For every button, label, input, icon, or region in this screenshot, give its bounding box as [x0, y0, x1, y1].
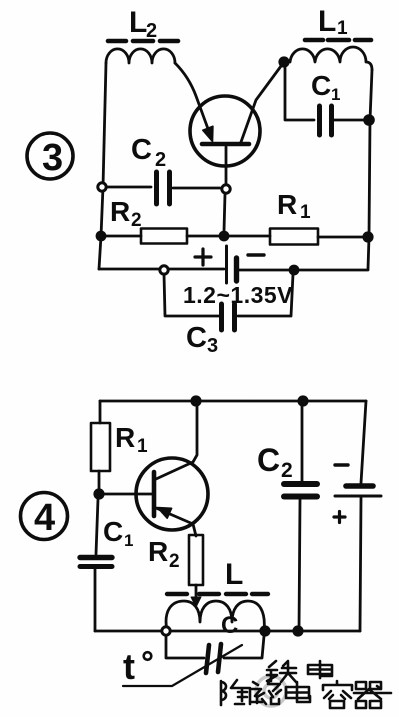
battery B2 — [335, 401, 381, 631]
svg-text:3: 3 — [207, 335, 218, 357]
resistor R2 — [101, 229, 224, 244]
resistor R1 (vertical) — [91, 401, 110, 493]
capacitor C2 label — [257, 442, 293, 482]
battery B2 plus sign — [334, 512, 345, 523]
caption character: tie (iron) — [267, 661, 296, 682]
inductor L2 core (dashed line) — [108, 39, 178, 44]
capacitor C1 label — [311, 70, 340, 104]
resistor R2 label — [148, 536, 180, 572]
node: dot left rail at divider row — [96, 231, 107, 242]
resistor R2 label — [110, 196, 142, 231]
svg-text:1: 1 — [300, 202, 311, 223]
battery B1 minus sign — [248, 253, 264, 256]
watermark swirl (grey) behind text — [256, 676, 286, 706]
svg-text:R: R — [277, 189, 297, 220]
capacitor C1 (horizontal plates) — [80, 558, 112, 632]
svg-text:R: R — [110, 196, 130, 227]
capacitor C3 loop wires — [164, 274, 293, 316]
wire: base junction to transistor base — [99, 493, 152, 496]
svg-text:L: L — [225, 558, 243, 591]
node: ring junction left rail at C2 row — [98, 183, 106, 191]
caption character: qi (device) — [354, 682, 391, 708]
capacitor C2 label — [131, 134, 166, 171]
wire: battery row — [99, 269, 368, 270]
wire: L2 right end down to emitter of transistor — [175, 63, 211, 137]
resistor R2 (vertical, from emitter) — [189, 535, 203, 607]
caption character: tao (pottery) — [221, 680, 250, 705]
node: junction dot at L1 left end — [278, 56, 289, 67]
wire: collector up to L1 junction — [241, 62, 284, 142]
svg-text:C: C — [311, 70, 331, 101]
wire: bottom rail — [95, 630, 360, 633]
inductor L2 label — [129, 6, 157, 42]
wire: base node down to divider row — [224, 194, 225, 231]
inductor L2 — [106, 49, 175, 63]
battery B2 minus sign — [335, 463, 348, 466]
inductor L1 — [290, 47, 372, 70]
svg-text:C: C — [103, 516, 123, 547]
wire: top rail — [100, 400, 366, 403]
svg-text:C: C — [131, 134, 152, 166]
node: dot at base junction — [93, 488, 104, 499]
svg-text:2: 2 — [169, 551, 180, 572]
svg-text:1: 1 — [337, 18, 348, 39]
svg-text:t: t — [123, 646, 135, 687]
svg-text:C: C — [186, 322, 207, 354]
transistor Q2 (PNP, base left, collector up, emitter down to R2) — [136, 406, 208, 536]
svg-text:3: 3 — [42, 137, 63, 179]
svg-text:1: 1 — [331, 85, 340, 104]
pointer line from t-degree to capacitor C — [123, 645, 242, 686]
inductor L — [166, 601, 264, 631]
node: ring junction battery row left — [160, 266, 168, 274]
wire: C1 branch from base junction down — [96, 499, 98, 554]
capacitor C3 — [222, 304, 235, 330]
resistor R1 label — [115, 422, 148, 457]
svg-text:1: 1 — [124, 531, 133, 550]
svg-text:1: 1 — [137, 436, 148, 457]
caption character: dian (electric) second — [286, 682, 310, 702]
t-degree label — [123, 646, 151, 687]
node: dot divider center — [219, 231, 230, 242]
battery B1 plus sign — [195, 249, 211, 265]
capacitor C2 (horizontal plates) — [284, 406, 317, 631]
battery B1 — [227, 246, 237, 283]
node: ring junction bottom rail left — [162, 627, 170, 635]
svg-text:C: C — [221, 612, 238, 639]
node: dot top rail at collector — [190, 395, 201, 406]
node: dot right rail at C1 row — [363, 114, 375, 126]
node: dot bottom rail at L right — [259, 625, 270, 636]
circled figure number 4 — [21, 493, 68, 540]
svg-text:C: C — [257, 442, 280, 478]
transistor Q1 (PNP, emitter from L2, collector to L1, base down) — [190, 96, 260, 184]
svg-text:R: R — [115, 422, 135, 453]
wire: left rail from L2 down to battery row — [99, 63, 106, 269]
circled figure number 3 — [27, 133, 73, 179]
capacitor C1 label — [103, 516, 133, 550]
svg-text:2: 2 — [281, 459, 293, 482]
svg-text:1.2~1.35V: 1.2~1.35V — [183, 282, 293, 308]
capacitor C loop wires — [166, 636, 264, 658]
resistor R1 — [224, 229, 368, 245]
wire: right rail down to battery row — [368, 70, 372, 269]
node: dot bottom rail at C2 — [292, 625, 303, 636]
caption character: ci (porcelain) — [251, 678, 281, 704]
caption character: dian (electric) — [308, 661, 332, 678]
wire: L1 left junction down to C1 — [285, 67, 314, 120]
node: dot right rail at divider row — [362, 231, 373, 242]
node: ring junction at transistor base — [222, 185, 230, 193]
capacitor C2 — [107, 172, 220, 204]
caption character: rong (capacity) — [323, 681, 352, 708]
inductor L core (dashed line) — [167, 592, 268, 596]
svg-text:2: 2 — [155, 149, 166, 171]
node: dot top rail at C2 — [297, 395, 308, 406]
svg-text:L: L — [318, 5, 336, 38]
capacitor C (thermal, slanted plates) — [206, 644, 221, 673]
resistor R1 label — [277, 189, 311, 223]
capacitor C1 — [320, 106, 366, 135]
svg-text:R: R — [148, 536, 168, 567]
inductor L1 core (dashed line) — [305, 38, 371, 43]
svg-text:4: 4 — [34, 497, 55, 539]
node: dot battery row right — [289, 265, 300, 276]
svg-text:L: L — [129, 6, 147, 39]
inductor L1 label — [318, 5, 348, 39]
capacitor C3 label — [186, 322, 218, 357]
